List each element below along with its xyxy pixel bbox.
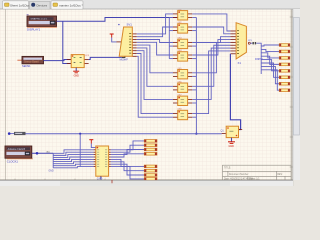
- wire: [192, 45, 196, 47]
- optocoupler OK3: [173, 38, 192, 49]
- resistor RB3: [144, 174, 157, 177]
- wire OK3 to X1 pin3: [192, 37, 230, 43]
- svg-text:REV:: REV:: [277, 174, 283, 176]
- wire MCU to RT1: [111, 141, 145, 150]
- wire OK2 to X1 pin2: [192, 27, 230, 34]
- wire MCU to RB3: [111, 164, 145, 175]
- resistor R2: [279, 50, 290, 53]
- wire: [44, 60, 72, 61]
- wire: [11, 133, 15, 135]
- wire: [230, 54, 240, 130]
- svg-text:mantex 1of1Doc *: mantex 1of1Doc *: [59, 4, 84, 8]
- svg-text:TITLE:: TITLE:: [224, 167, 231, 169]
- frame border right: [290, 9, 292, 180]
- svg-text:Document Number:: Document Number:: [229, 173, 249, 176]
- svg-text:Sensor Board: Sensor Board: [24, 61, 39, 64]
- wire: [192, 17, 196, 19]
- display module DIS3: [5, 146, 32, 158]
- wire OK6 to X1 pin6: [192, 45, 230, 86]
- resistor RB1: [144, 165, 157, 168]
- wire: [26, 133, 222, 135]
- wire OK5 to X1 pin5: [192, 42, 230, 72]
- svg-text:X1: X1: [238, 61, 242, 65]
- svg-text:SENS1: SENS1: [22, 64, 31, 68]
- resistor R7: [279, 82, 290, 85]
- svg-text:Devices: Devices: [37, 4, 48, 8]
- optocoupler OK4: [173, 50, 192, 61]
- optocoupler OK1: [173, 9, 192, 20]
- resistor R8: [279, 89, 290, 92]
- vertical scrollbar: [293, 9, 300, 180]
- IC1 ground: [73, 68, 79, 78]
- optocoupler OK5: [173, 68, 192, 79]
- junction dot A: [8, 132, 11, 135]
- title block: [223, 165, 292, 180]
- canvas background: [0, 9, 293, 180]
- wire MCU to RB1: [111, 159, 145, 166]
- frame border bottom: [0, 179, 293, 181]
- VCC symbol at SV1: [110, 34, 114, 38]
- resistor R6: [279, 76, 290, 79]
- wire: [192, 58, 196, 60]
- wire: [169, 17, 173, 19]
- optocoupler OK7: [173, 94, 192, 105]
- junction rail/net: [195, 133, 197, 135]
- resistor R3: [279, 57, 290, 60]
- wire: [63, 21, 71, 63]
- wire MCU to RB4: [111, 167, 145, 179]
- DIS3 value underline: [7, 158, 33, 160]
- frame right ticks: [290, 16, 293, 18]
- MCU bottom pin to GND label: [100, 176, 102, 179]
- wire: [169, 58, 173, 60]
- wire comb4: [53, 157, 93, 160]
- tab mantex (active): [51, 1, 84, 9]
- wire: [192, 75, 196, 77]
- DIS1 value underline (orange): [27, 26, 57, 28]
- wire SV1 pin2 to OK2: [137, 27, 173, 37]
- Q1 ground: [228, 138, 235, 148]
- frame bottom ticks: [14, 179, 16, 182]
- wire bus to R2: [261, 49, 279, 51]
- resistor RT1: [144, 140, 157, 143]
- wire bus to R5: [261, 60, 279, 71]
- svg-text:GND: GND: [49, 170, 54, 172]
- wire SV1 pin3 to OK3: [137, 40, 173, 43]
- wire comb5: [53, 159, 93, 161]
- svg-text:Sheet: 1/1: Sheet: 1/1: [249, 177, 260, 180]
- optocoupler OK8: [173, 109, 192, 120]
- tab Sheet: [3, 1, 31, 9]
- wire OK4 to X1 pin4: [192, 40, 230, 55]
- wire: [169, 45, 173, 47]
- pin header SV1: [117, 27, 137, 56]
- optocoupler OK6: [173, 81, 192, 92]
- optocoupler OK2: [173, 22, 192, 33]
- svg-text:GND: GND: [229, 145, 235, 148]
- opto IC1: [67, 55, 89, 68]
- wire bus to R6: [261, 63, 279, 77]
- wire: [112, 38, 117, 42]
- wire: [89, 57, 122, 59]
- svg-text:GRAPHIC LCD 1: GRAPHIC LCD 1: [31, 18, 49, 21]
- wire OK7 to X1 pin7: [192, 48, 230, 99]
- resistor RB2: [144, 169, 157, 172]
- svg-text:GND: GND: [74, 75, 80, 78]
- wire bus to R3: [261, 53, 279, 58]
- connector X1: [230, 23, 246, 59]
- svg-text:M09HP: M09HP: [120, 59, 129, 62]
- wire: [91, 144, 96, 148]
- wire comb1: [53, 150, 93, 154]
- wire comb2: [53, 152, 93, 155]
- svg-text:SV1: SV1: [127, 23, 133, 27]
- wire: [192, 116, 196, 118]
- wire bus to R4: [261, 56, 279, 64]
- red tick on bottom bar: [111, 180, 113, 183]
- X1 shield circle: [248, 42, 250, 44]
- wire: [122, 53, 125, 58]
- wire comb6: [53, 162, 93, 164]
- resistor RB4: [144, 178, 157, 181]
- wire: [192, 102, 196, 104]
- wire OK1 to X1 pin1: [192, 14, 230, 31]
- wire MCU to RB2: [111, 162, 145, 171]
- resistor R5: [279, 70, 290, 73]
- tab bar: [0, 0, 300, 9]
- wire bus to R8: [261, 70, 279, 90]
- svg-text:CLOCK1: CLOCK1: [7, 160, 19, 164]
- oscillator Q1: [222, 126, 243, 137]
- wire bus to R1: [261, 45, 279, 46]
- wire MCU to RT3: [111, 150, 145, 155]
- wire: [137, 56, 173, 117]
- microcontroller U2: [94, 146, 111, 176]
- wire OK8 to X1 pin8: [192, 51, 230, 114]
- resistor R4: [279, 63, 290, 66]
- resistor RT3: [144, 148, 157, 151]
- resistor RT2: [144, 144, 157, 147]
- svg-text:Advance Clock B: Advance Clock B: [8, 148, 26, 151]
- wire DIS1 data net: [57, 18, 178, 22]
- wire comb7: [53, 164, 93, 166]
- wire: [52, 153, 54, 168]
- wire SV1 pin1 to OK1: [137, 14, 173, 34]
- wire bus to R7: [261, 66, 279, 83]
- wire MCU to RT4: [111, 154, 145, 157]
- SV1 label dot: [118, 24, 119, 25]
- VCC symbol MCU: [89, 140, 93, 144]
- wire MCU to RT2: [111, 145, 145, 152]
- frame border left: [5, 9, 7, 180]
- wire SV1 pin4 to OK4: [137, 42, 173, 55]
- wire: [256, 43, 261, 74]
- resistor R1: [279, 44, 290, 47]
- wire SV1 pin8 to OK8: [137, 54, 173, 114]
- wire: [192, 30, 196, 32]
- wire SV1 pin6 to OK6: [137, 48, 173, 86]
- wire: [168, 18, 170, 59]
- wire: [195, 18, 197, 134]
- junction DIS3 net: [36, 152, 39, 155]
- horizontal scrollbar: [0, 180, 293, 186]
- display module DIS1: [27, 16, 57, 27]
- wire: [79, 134, 81, 167]
- wire: [250, 42, 252, 44]
- wire SV1 pin7 to OK7: [137, 51, 173, 100]
- tab Devices: [30, 1, 51, 9]
- sensor module DIS2: [17, 56, 43, 63]
- wire SV1 pin5 to OK5: [137, 45, 173, 73]
- wire comb3: [53, 155, 93, 158]
- junction long net: [79, 133, 81, 135]
- svg-text:DISPLAY1: DISPLAY1: [27, 28, 41, 32]
- resistor RT4: [144, 153, 157, 156]
- wire: [32, 152, 53, 154]
- svg-text:Sheet 1of1Doc: Sheet 1of1Doc: [10, 4, 30, 8]
- wire comb8: [53, 167, 93, 168]
- wire: [169, 30, 173, 32]
- wire: [192, 89, 196, 91]
